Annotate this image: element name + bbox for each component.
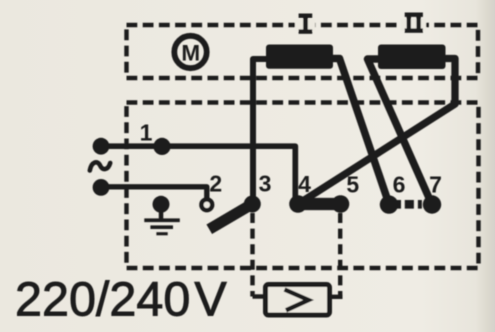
ground symbol — [144, 196, 180, 236]
dashed link terminal 3 to regulator — [250, 213, 254, 297]
terminal 3 dot — [244, 196, 261, 213]
stub wire to regulator right — [331, 295, 343, 299]
svg-text:6: 6 — [393, 172, 406, 198]
dashed enclosure box (top, motor/heater unit) — [127, 25, 479, 78]
label II (heater II) — [401, 13, 426, 33]
dashed link terminal 5 to regulator — [338, 213, 342, 297]
label I (heater I) — [295, 14, 315, 34]
wire: neutral input to terminal 2 — [101, 187, 207, 198]
terminal 4 dot — [289, 195, 307, 213]
terminal 1 dot — [153, 138, 170, 155]
svg-text:7: 7 — [429, 172, 442, 198]
wire: heater II right lead down and diagonal to terminal 4 — [298, 59, 455, 205]
stub wire to regulator left — [253, 294, 265, 298]
terminal 6 dot — [380, 195, 398, 213]
wire: phase input through terminal 1 to terminal 4 — [101, 146, 295, 201]
svg-text:5: 5 — [346, 172, 359, 198]
heating element II — [378, 45, 446, 70]
svg-text:4: 4 — [298, 171, 311, 197]
wire: heater II left lead diagonal to terminal 7 — [368, 59, 432, 204]
dashed bridge terminals 6-7 — [397, 200, 424, 209]
wire: heater I left lead down to terminal 3 — [253, 59, 268, 200]
motor M symbol — [174, 36, 206, 68]
dashed enclosure box (bottom, switch unit) — [127, 103, 479, 269]
svg-text:M: M — [181, 40, 200, 65]
terminal 7 dot — [423, 195, 441, 213]
svg-text:1: 1 — [140, 120, 153, 146]
bridge bar terminals 4-5 — [298, 198, 341, 210]
svg-text:3: 3 — [259, 171, 272, 197]
AC tilde symbol — [90, 162, 110, 170]
heating element I — [266, 45, 333, 69]
regulator box with > symbol — [266, 285, 330, 316]
switch lever at terminal 3 — [214, 206, 249, 226]
svg-text:220/240 V: 220/240 V — [15, 273, 227, 327]
terminal 2 open circle — [201, 199, 212, 210]
input terminal dot (neutral) — [93, 179, 110, 196]
wire: heater I right lead diagonal to terminal 6 — [332, 59, 390, 205]
terminal 5 dot — [332, 195, 350, 213]
svg-text:2: 2 — [209, 171, 222, 197]
input terminal dot (phase) — [93, 138, 110, 155]
